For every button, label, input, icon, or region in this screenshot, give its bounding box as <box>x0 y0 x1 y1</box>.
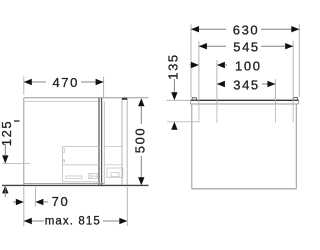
dimension max 815 arrow left <box>24 218 32 224</box>
dimension max 815 line right segment <box>103 220 127 222</box>
washbasin bar top line <box>191 99 299 101</box>
dimension 630 extension right <box>298 24 300 97</box>
drawer slide bracket <box>89 174 98 179</box>
open front panel top cap <box>122 98 127 100</box>
svg-text:345: 345 <box>233 77 260 92</box>
dimension 125 arrow down <box>2 155 8 163</box>
dimension 125 top reference line <box>2 162 30 164</box>
drawer top edge <box>63 146 100 148</box>
mounting tick on left edge <box>14 120 20 122</box>
dimension 470 extension left <box>23 77 25 95</box>
cabinet bottom main line (floor reference) <box>2 184 149 186</box>
cabinet side view top outer line (also 500 extension) <box>24 97 149 99</box>
dimension 545 extension left upper <box>198 41 200 104</box>
dimension max 815 line left segment <box>24 220 44 222</box>
svg-text:630: 630 <box>233 23 260 38</box>
dimension 630 line left segment <box>191 28 226 30</box>
dimension 545 extension right upper <box>292 41 294 104</box>
dimension 100 line to text <box>225 64 228 66</box>
drawer wall clip upper <box>63 149 65 153</box>
front bracket <box>107 168 123 178</box>
svg-text:135: 135 <box>166 53 181 80</box>
fixing line hanging 545 right <box>292 104 294 123</box>
front attachment top line <box>104 146 122 148</box>
cabinet front panel outer line <box>98 98 100 185</box>
dimension 470 extension right <box>103 77 105 98</box>
dimension 135 arrow up <box>171 122 177 130</box>
cabinet front panel inner line <box>101 98 103 185</box>
dimension 70 extension right <box>34 187 36 207</box>
dimension 500 arrow up <box>138 98 144 106</box>
vanity front box left edge <box>191 104 193 189</box>
svg-text:470: 470 <box>52 75 79 90</box>
dimension 125 line lower <box>4 185 6 197</box>
dimension 125 line upper <box>4 144 6 163</box>
cabinet bottom inner line <box>24 182 105 184</box>
dimension 500 arrow down <box>138 177 144 185</box>
dimension 345 arrow right <box>267 81 275 87</box>
dimension 70 left arrow tail <box>13 201 16 203</box>
dimension 135 top reference extension <box>166 99 190 101</box>
drawer left wall <box>62 147 64 182</box>
dimension 630 arrow right <box>291 26 299 32</box>
vanity front box right edge <box>295 104 297 189</box>
open front panel left line <box>121 98 123 185</box>
dimension 630 line right segment <box>261 28 299 30</box>
dimension 100 extension right upper <box>216 60 218 104</box>
dimension 545 line right segment <box>261 45 293 47</box>
cabinet front panel back face <box>103 101 105 184</box>
washbasin lip right <box>294 98 298 101</box>
dimension 70 arrow pointing right <box>16 199 24 205</box>
dimension 135 arrow down <box>171 92 177 100</box>
cabinet side view top inner line <box>24 100 101 102</box>
fixing line hanging 100 right <box>216 104 218 123</box>
dimension 345 line left segment <box>217 83 225 85</box>
dimension 70 line to text <box>43 201 48 203</box>
dimension 100 tail left <box>190 64 193 66</box>
dimension 135 line upper <box>173 79 175 94</box>
washbasin lip left <box>192 98 196 101</box>
dimension 345 arrow left <box>217 81 225 87</box>
cabinet side view left edge <box>23 98 25 186</box>
dimension 545 arrow left <box>199 43 207 49</box>
drawer slide bracket inner detail <box>91 174 97 179</box>
dimension 345 extension right upper <box>274 79 276 104</box>
svg-text:70: 70 <box>52 194 70 209</box>
front bracket inner box <box>111 173 119 177</box>
drawer slide rail low box <box>66 176 82 179</box>
dimension 545 arrow right <box>285 43 293 49</box>
dimension 500 line lower <box>140 156 142 178</box>
svg-text:545: 545 <box>233 40 260 55</box>
dimension 630 arrow left <box>191 26 199 32</box>
dimension 70 extension left <box>23 187 25 226</box>
drawer bottom edge <box>63 181 100 183</box>
dimension 470 line right segment <box>81 81 104 83</box>
fixing line hanging 545 left <box>198 104 200 123</box>
washbasin bar right end <box>298 100 300 104</box>
svg-text:125: 125 <box>0 120 14 147</box>
dimension 125 arrow up <box>2 185 8 193</box>
dimension 70 arrow pointing left <box>35 199 43 205</box>
drawer wall clip lower <box>63 160 65 162</box>
front attachment mid line <box>104 164 122 166</box>
washbasin bar bottom line <box>191 103 299 105</box>
washbasin bar left end <box>190 100 192 104</box>
dimension 470 line left segment <box>24 81 46 83</box>
dimension 545 line left segment <box>199 45 226 47</box>
dimension 345 line right segment <box>262 83 275 85</box>
dimension 630 extension left <box>190 24 192 97</box>
svg-text:500: 500 <box>133 127 148 154</box>
basin bottom hidden line <box>167 121 199 123</box>
dimension 470 arrow right <box>96 79 104 85</box>
vanity front box bottom edge <box>192 188 296 190</box>
drawer mid line <box>63 164 100 166</box>
dimension 100 arrow pointing right <box>191 62 199 68</box>
svg-text:max. 815: max. 815 <box>45 216 101 228</box>
dimension 470 arrow left <box>24 79 32 85</box>
dimension max 815 arrow right <box>119 218 127 224</box>
dimension max 815 extension right <box>126 187 128 226</box>
dimension 500 line upper <box>140 106 142 124</box>
svg-text:100: 100 <box>235 58 262 73</box>
dimension 100 arrow pointing left <box>217 62 225 68</box>
fixing line hanging 345 right <box>274 104 276 123</box>
open front panel right line <box>126 98 128 185</box>
